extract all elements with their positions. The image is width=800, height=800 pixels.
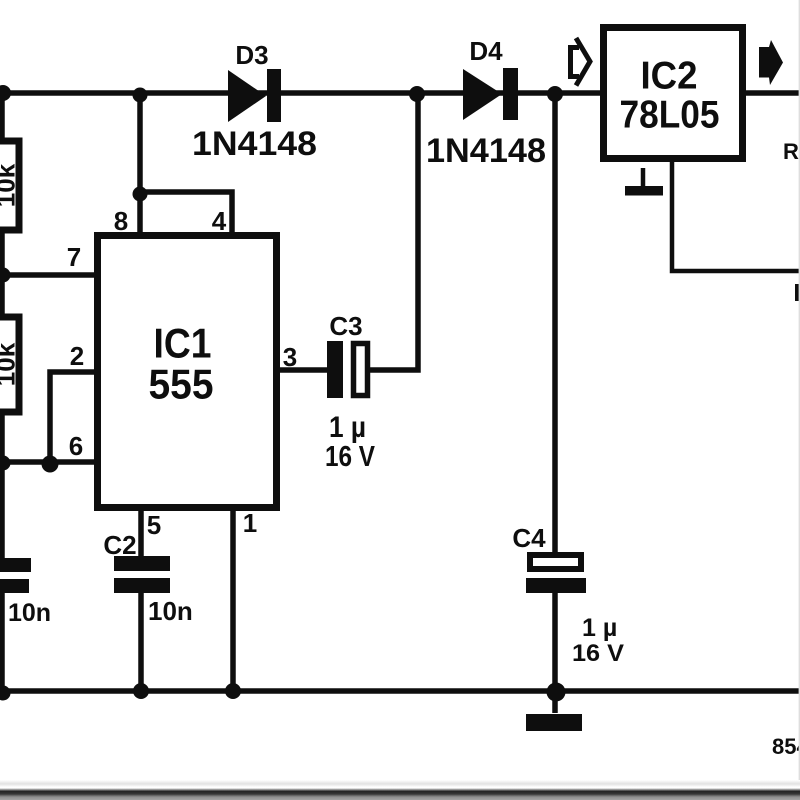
svg-text:3: 3	[283, 342, 297, 372]
svg-text:D3: D3	[235, 40, 268, 70]
svg-text:1 µ: 1 µ	[329, 411, 366, 444]
svg-text:5: 5	[147, 510, 161, 540]
svg-text:2: 2	[70, 341, 84, 371]
svg-text:C4: C4	[512, 523, 546, 553]
svg-text:IC1: IC1	[154, 320, 212, 367]
svg-text:IC2: IC2	[641, 55, 698, 98]
svg-text:8: 8	[114, 206, 128, 236]
svg-text:7: 7	[67, 242, 81, 272]
svg-text:1N4148: 1N4148	[192, 125, 317, 163]
svg-text:1N4148: 1N4148	[426, 132, 546, 170]
svg-text:16 V: 16 V	[572, 640, 624, 667]
svg-text:854: 854	[772, 734, 800, 759]
svg-text:C2: C2	[103, 530, 136, 560]
svg-text:4: 4	[212, 206, 227, 236]
svg-text:R4: R4	[783, 139, 800, 164]
svg-text:10n: 10n	[148, 596, 193, 626]
svg-text:D4: D4	[469, 36, 503, 66]
svg-text:78L05: 78L05	[620, 94, 720, 137]
svg-text:6: 6	[69, 431, 83, 461]
svg-text:10k: 10k	[0, 163, 21, 207]
svg-text:C3: C3	[329, 311, 362, 341]
svg-text:10k: 10k	[0, 342, 21, 386]
svg-text:1: 1	[243, 508, 257, 538]
svg-text:555: 555	[149, 361, 214, 408]
svg-text:10n: 10n	[8, 599, 51, 627]
svg-text:1 µ: 1 µ	[582, 614, 617, 642]
svg-text:16 V: 16 V	[325, 441, 376, 473]
